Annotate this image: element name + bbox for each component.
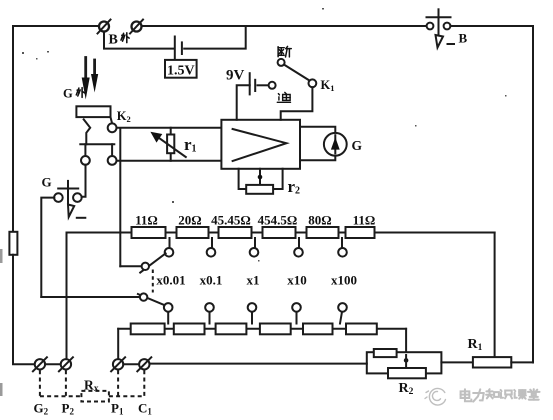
range contact x1 xyxy=(250,248,259,257)
terminal P2 xyxy=(59,357,73,371)
resistor 20Ω xyxy=(177,227,209,238)
rotary lower pole xyxy=(140,293,147,300)
range contact x0.1 xyxy=(207,248,216,257)
measuring resistor 2 xyxy=(174,324,205,335)
wire battery branch left xyxy=(104,32,174,49)
battery 9V plates xyxy=(250,73,256,94)
switch K2 pole contact xyxy=(108,123,117,132)
measuring resistor 4 xyxy=(260,324,291,335)
external-galvanometer arrows G外 xyxy=(82,58,99,100)
wire K2 node down to range wire xyxy=(119,129,121,267)
rheostat r2 xyxy=(246,185,273,194)
wire C1 to R2 xyxy=(150,363,367,365)
terminal C1 xyxy=(137,357,151,371)
switch K2 contact left xyxy=(81,156,90,165)
range contact x0.01 xyxy=(165,248,174,257)
measuring contact 2 xyxy=(205,303,214,312)
terminal block G外 xyxy=(76,106,110,117)
svg-text:x0.01: x0.01 xyxy=(156,273,185,288)
measuring resistor 1 xyxy=(131,324,165,335)
battery 1.5V plates xyxy=(175,37,182,60)
svg-text:x10: x10 xyxy=(287,273,307,288)
link wire P1-C1 xyxy=(123,363,139,365)
rotary upper pole wire xyxy=(120,265,141,267)
scan specks xyxy=(22,8,507,262)
wire top right xyxy=(450,25,533,27)
contact 断 xyxy=(278,59,285,66)
svg-text:x100: x100 xyxy=(331,273,357,288)
switch K1 pole xyxy=(309,79,317,87)
switch K2 contact right xyxy=(108,156,117,165)
range contact x100 xyxy=(338,248,347,257)
wire G to rotary lower pole xyxy=(41,296,140,298)
pushbutton G xyxy=(54,181,85,218)
terminal B外-1 xyxy=(98,20,111,34)
wire amplifier bottom to r2 left xyxy=(239,169,247,189)
watermark logo xyxy=(425,388,446,405)
resistor 11Ω (a) xyxy=(132,227,166,238)
svg-text:9V: 9V xyxy=(226,68,245,84)
wire amplifier bottom to r2 right xyxy=(273,169,283,189)
galvanometer G xyxy=(324,133,347,156)
rotary lower lever xyxy=(138,294,165,305)
measuring resistor 5 xyxy=(303,324,333,335)
wire measuring row to terminal P1 xyxy=(117,329,119,359)
svg-text:x0.1: x0.1 xyxy=(200,273,223,288)
wire R1 to right rail xyxy=(511,361,533,363)
dashed lead P2 xyxy=(65,370,67,396)
resistor 454.5Ω xyxy=(263,227,296,238)
rotary gang link (dashed) xyxy=(152,270,154,293)
right rail xyxy=(532,26,534,363)
wire amplifier to galvanometer top xyxy=(300,127,335,133)
wire measuring row to R2 wiper xyxy=(405,329,407,369)
resistor 80Ω xyxy=(307,227,339,238)
switch K2 prongs xyxy=(85,144,112,156)
measuring row wire xyxy=(118,328,406,330)
watermark text 电力知识课堂 xyxy=(461,389,540,401)
label G外 xyxy=(63,87,84,101)
switch K2 lever xyxy=(84,119,91,144)
svg-text:11Ω: 11Ω xyxy=(135,213,158,228)
svg-text:B: B xyxy=(459,31,468,46)
svg-text:G: G xyxy=(63,87,73,101)
pushbutton B xyxy=(427,9,455,47)
rotary upper pole xyxy=(142,263,149,270)
label B外 xyxy=(109,33,130,48)
range resistor row wire xyxy=(67,232,495,234)
junction dot at R2 wiper xyxy=(404,358,409,363)
r2 wiper xyxy=(258,169,263,185)
wire battery branch right xyxy=(184,26,246,49)
wire G right contact up to K2 xyxy=(82,165,86,197)
left rail lower segment xyxy=(13,255,35,364)
measuring contact stubs (lower row) xyxy=(168,312,342,324)
svg-text:B: B xyxy=(109,33,118,48)
svg-text:G: G xyxy=(42,175,52,190)
dashed lead P1 xyxy=(117,370,119,396)
rheostat r1 xyxy=(150,128,185,161)
rotary upper lever xyxy=(140,253,165,272)
terminal G2 xyxy=(33,357,47,371)
measuring contact 1 xyxy=(164,303,173,312)
wire K2 pole to amplifier top rail xyxy=(117,127,222,129)
resistor R1 xyxy=(473,357,511,367)
terminal P1 xyxy=(111,357,125,371)
switch K2 stub xyxy=(111,117,113,123)
amplifier U1 xyxy=(221,120,300,169)
wire R2 to R1 xyxy=(441,361,473,363)
switch K2 crossbar xyxy=(80,143,114,145)
label 断 xyxy=(278,46,291,57)
svg-text:80Ω: 80Ω xyxy=(308,213,331,228)
svg-text:G: G xyxy=(352,138,363,153)
resistor Rx (dashed, unknown) xyxy=(81,391,109,402)
resistor 45.45Ω xyxy=(219,227,252,238)
dashed lead G2 xyxy=(39,370,41,396)
scan smudge left edge b xyxy=(0,383,3,396)
link wire G2-P2 xyxy=(45,363,61,365)
svg-text:20Ω: 20Ω xyxy=(178,213,201,228)
switch K1 lever xyxy=(284,65,310,81)
wire K1 to amplifier top xyxy=(281,87,313,120)
R2 wiper lower segment xyxy=(405,355,407,368)
svg-text:454.5Ω: 454.5Ω xyxy=(258,213,298,228)
range contact stubs (upper row) xyxy=(170,238,343,248)
svg-text:x1: x1 xyxy=(247,273,260,288)
scan smudge left edge a xyxy=(0,249,3,263)
measuring resistor 3 xyxy=(216,324,247,335)
measuring contact 5 xyxy=(338,303,347,312)
measuring contact 3 xyxy=(248,303,257,312)
potentiometer R2 body loop xyxy=(367,352,442,373)
range contact x10 xyxy=(294,248,303,257)
measuring resistor 6 xyxy=(346,324,377,335)
wire top-left from left rail to terminal B外-1 xyxy=(13,25,99,27)
potentiometer R2 element xyxy=(388,368,426,378)
wire amplifier to galvanometer bottom xyxy=(300,156,335,161)
contact 通 xyxy=(269,82,276,89)
svg-text:1.5V: 1.5V xyxy=(167,64,195,79)
dashed lead C1 xyxy=(143,370,145,396)
wire K2 right contact to amplifier bottom rail xyxy=(117,160,222,162)
value label 1.5V xyxy=(165,60,197,79)
measuring contact 4 xyxy=(292,303,301,312)
resistor 11Ω (b) xyxy=(346,227,375,238)
label 通 xyxy=(277,92,290,102)
svg-text:11Ω: 11Ω xyxy=(353,213,376,228)
dashed wire G2 to Rx xyxy=(40,395,82,397)
dashed wire Rx to C1 xyxy=(109,395,144,397)
wire top middle to pushbutton B xyxy=(142,25,427,27)
wire G left contact down xyxy=(41,198,54,297)
R2 series resistor xyxy=(374,349,397,357)
left rail upper segment xyxy=(12,26,14,232)
wire range node down to terminal P2 xyxy=(66,233,68,360)
svg-text:45.45Ω: 45.45Ω xyxy=(211,213,251,228)
wire 9V to contact 通 xyxy=(258,84,269,86)
wire range row right down to R1 xyxy=(494,233,496,358)
resistor (left rail, unlabeled) xyxy=(9,232,17,255)
wire 9V to amplifier xyxy=(237,85,250,120)
terminal B外-2 xyxy=(130,20,143,34)
